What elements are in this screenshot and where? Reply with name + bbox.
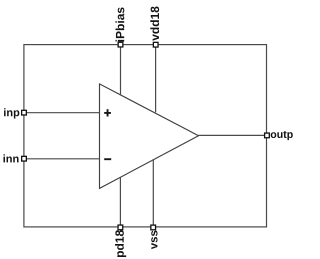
noninverting input marker + — [104, 109, 111, 116]
label iPbias — [116, 7, 125, 41]
label inp — [4, 108, 19, 118]
wire inn — [24, 158, 100, 160]
label vss — [151, 231, 157, 250]
label outp — [271, 131, 293, 140]
label vdd18 — [150, 6, 159, 40]
pin pd18 — [118, 225, 123, 230]
pin inp — [22, 110, 27, 115]
pin outp — [265, 133, 270, 138]
wire outp — [199, 134, 267, 136]
wire inp — [24, 112, 100, 114]
op-amp A1 triangle — [100, 84, 199, 188]
pin iPbias — [118, 42, 123, 47]
wire iPbias — [120, 45, 122, 96]
pin vdd18 — [153, 42, 158, 47]
wire pd18 — [119, 178, 121, 228]
wire vdd18 — [155, 45, 157, 113]
wire vss — [152, 159, 154, 227]
pin inn — [22, 156, 27, 161]
label inn — [3, 154, 18, 162]
label pd18 — [115, 230, 126, 257]
symbol boundary box — [24, 45, 267, 227]
inverting input marker - — [104, 158, 111, 160]
pin vss — [151, 225, 156, 230]
